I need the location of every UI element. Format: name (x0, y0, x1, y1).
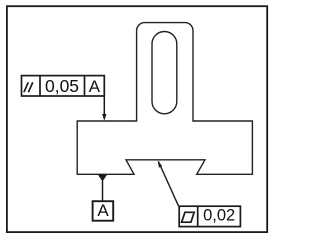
svg-text:0,02: 0,02 (203, 206, 235, 224)
leader arrowhead at notch floor (158, 160, 163, 167)
svg-text:A: A (97, 201, 109, 220)
datum triangle (filled) (98, 175, 107, 182)
feature control frame: flatness (179, 206, 240, 226)
drawing border frame (7, 6, 267, 232)
slot (obround hole) (152, 32, 177, 114)
feature control frame: parallelism (22, 76, 105, 96)
leader from flatness frame (158, 162, 178, 207)
datum box (93, 201, 114, 221)
leader from parallelism frame (103, 96, 105, 119)
parallelism symbol // (24, 82, 33, 92)
flatness symbol (parallelogram) (182, 212, 195, 222)
leader arrowhead (102, 114, 106, 121)
part outline (T-shaped block with dovetail notch) (77, 23, 252, 175)
svg-text:A: A (89, 77, 101, 96)
datum stem (102, 181, 104, 201)
svg-text:0,05: 0,05 (45, 76, 79, 96)
